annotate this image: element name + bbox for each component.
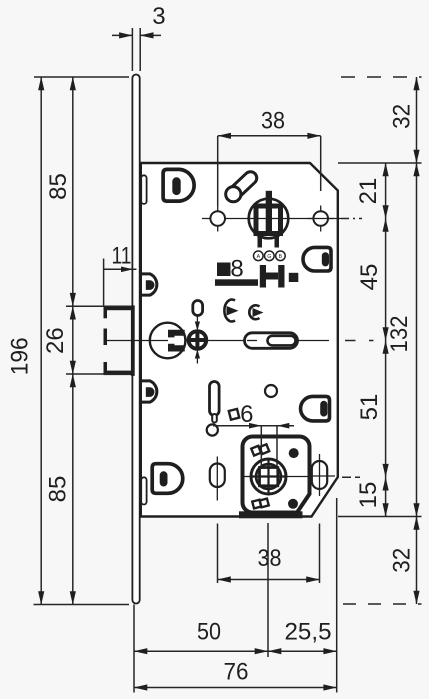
- svg-text:26: 26: [42, 327, 69, 354]
- svg-text:6: 6: [240, 401, 253, 428]
- svg-text:132: 132: [386, 316, 413, 353]
- svg-text:76: 76: [224, 659, 249, 686]
- svg-text:85: 85: [45, 476, 72, 503]
- svg-text:3: 3: [152, 3, 165, 30]
- svg-text:51: 51: [356, 394, 383, 421]
- svg-text:G: G: [267, 254, 271, 260]
- svg-text:38: 38: [261, 108, 285, 135]
- svg-text:32: 32: [389, 104, 416, 129]
- svg-text:32: 32: [388, 548, 415, 573]
- svg-text:45: 45: [356, 264, 383, 291]
- svg-text:A: A: [257, 254, 261, 260]
- svg-text:85: 85: [45, 173, 72, 200]
- svg-text:50: 50: [197, 619, 221, 646]
- svg-text:B: B: [279, 254, 283, 260]
- svg-text:196: 196: [7, 337, 34, 375]
- svg-text:21: 21: [355, 178, 382, 205]
- svg-text:15: 15: [355, 482, 382, 509]
- svg-text:38: 38: [258, 545, 282, 572]
- svg-text:25,5: 25,5: [285, 619, 332, 646]
- svg-text:11: 11: [112, 243, 132, 270]
- svg-text:8: 8: [230, 256, 243, 283]
